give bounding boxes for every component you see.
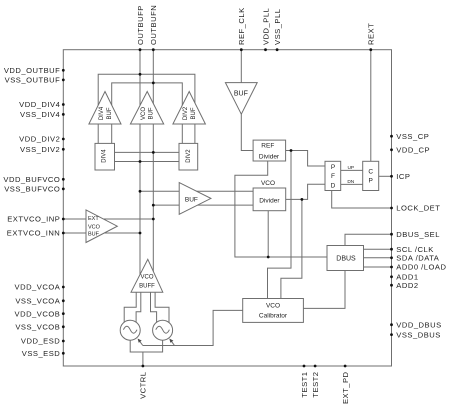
svg-text:P: P [369, 177, 373, 184]
svg-text:ADD2: ADD2 [396, 281, 418, 290]
svg-text:BUFF: BUFF [139, 284, 155, 290]
svg-text:VSS_VCOB: VSS_VCOB [15, 323, 60, 332]
svg-text:VCO: VCO [88, 224, 101, 230]
svg-text:VDD_DBUS: VDD_DBUS [396, 320, 441, 329]
svg-text:VDD_ESD: VDD_ESD [21, 337, 60, 346]
svg-text:LOCK_DET: LOCK_DET [396, 204, 440, 213]
svg-text:EXT_PD: EXT_PD [341, 371, 350, 404]
svg-text:DIV2: DIV2 [186, 149, 192, 163]
svg-text:VSS_CP: VSS_CP [396, 132, 429, 141]
svg-text:VCO: VCO [261, 180, 275, 187]
svg-text:REF_CLK: REF_CLK [237, 7, 246, 45]
svg-text:VCTRL: VCTRL [139, 372, 148, 399]
svg-text:VSS_DIV2: VSS_DIV2 [20, 145, 60, 154]
svg-text:EXTVCO_INN: EXTVCO_INN [7, 229, 61, 238]
svg-text:VSS_BUFVCO: VSS_BUFVCO [4, 185, 60, 194]
svg-text:TEST1: TEST1 [300, 372, 309, 398]
svg-text:BUF: BUF [88, 231, 100, 237]
svg-text:OUTBUFP: OUTBUFP [136, 5, 145, 45]
svg-text:VDD_DIV2: VDD_DIV2 [19, 135, 60, 144]
svg-text:ADD0 /LOAD: ADD0 /LOAD [396, 263, 446, 272]
svg-text:VCO: VCO [266, 302, 280, 309]
svg-text:EXT: EXT [88, 216, 99, 222]
svg-text:VSS_DBUS: VSS_DBUS [396, 330, 441, 339]
svg-text:C: C [368, 169, 373, 176]
svg-text:VDD_OUTBUF: VDD_OUTBUF [4, 66, 60, 75]
svg-text:SDA /DATA: SDA /DATA [396, 254, 439, 263]
svg-text:OUTBUFN: OUTBUFN [149, 5, 158, 45]
svg-text:DIV4: DIV4 [101, 149, 107, 163]
svg-text:Divider: Divider [259, 197, 280, 204]
svg-text:BUF: BUF [107, 107, 113, 119]
svg-text:REXT: REXT [367, 23, 376, 45]
svg-text:VCO: VCO [141, 107, 147, 120]
svg-text:VDD_BUFVCO: VDD_BUFVCO [3, 175, 60, 184]
svg-text:BUF: BUF [234, 90, 248, 97]
svg-text:UP: UP [347, 165, 354, 171]
svg-text:EXTVCO_INP: EXTVCO_INP [7, 215, 60, 224]
svg-text:VSS_PLL: VSS_PLL [273, 9, 282, 45]
svg-text:ICP: ICP [396, 172, 410, 181]
svg-text:BUF: BUF [191, 107, 197, 119]
svg-text:BUF: BUF [149, 107, 155, 119]
svg-text:D: D [331, 182, 336, 189]
svg-text:VSS_VCOA: VSS_VCOA [15, 297, 60, 306]
svg-text:DBUS_SEL: DBUS_SEL [396, 230, 440, 239]
svg-text:F: F [331, 173, 335, 180]
svg-text:BUF: BUF [185, 196, 198, 203]
svg-text:Divider: Divider [259, 153, 280, 160]
svg-text:P: P [331, 164, 335, 171]
svg-text:DIV2: DIV2 [183, 106, 189, 120]
svg-text:TEST2: TEST2 [311, 372, 320, 398]
svg-text:VDD_VCOB: VDD_VCOB [15, 309, 61, 318]
svg-text:REF: REF [261, 143, 274, 150]
svg-text:Calibrator: Calibrator [259, 312, 288, 319]
svg-text:VDD_DIV4: VDD_DIV4 [19, 100, 60, 109]
svg-text:VSS_ESD: VSS_ESD [22, 349, 61, 358]
svg-text:VDD_VCOA: VDD_VCOA [15, 283, 61, 292]
svg-text:DIV4: DIV4 [99, 106, 105, 120]
svg-text:VCO: VCO [140, 275, 153, 281]
svg-text:VSS_DIV4: VSS_DIV4 [20, 110, 60, 119]
svg-text:VDD_CP: VDD_CP [396, 146, 430, 155]
svg-text:DBUS: DBUS [336, 256, 356, 263]
svg-text:VDD_PLL: VDD_PLL [261, 8, 270, 45]
svg-text:DN: DN [347, 179, 354, 185]
svg-text:VSS_OUTBUF: VSS_OUTBUF [5, 76, 61, 85]
